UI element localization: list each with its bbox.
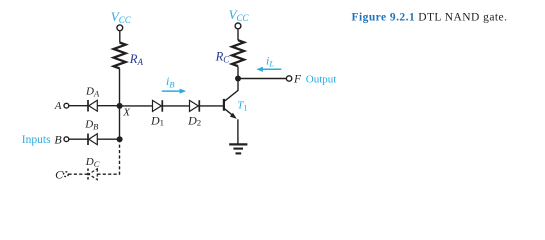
svg-text:DTL NAND gate.: DTL NAND gate. [418,12,507,24]
svg-text:F: F [293,74,302,86]
wire node X to D1 [120,105,153,107]
output terminal F [286,73,336,85]
wire RC bottom to collector node [237,66,239,78]
svg-text:B: B [54,133,62,147]
diode DB [84,118,98,145]
wire VCC to RC top [237,29,239,41]
power terminal VCC (left, top of RA) [111,9,132,31]
wire VCC to RA top [119,31,121,43]
wire B to diode DB [69,138,88,140]
svg-text:RC: RC [215,49,231,64]
wire RA bottom to node X [119,68,121,106]
diode D2 [187,100,201,127]
ground [229,144,247,153]
input terminal C (dashed) [55,168,68,182]
svg-text:DC: DC [85,156,100,169]
wire D1 to D2 [163,105,190,107]
wire DB to node B junction [97,138,119,140]
svg-text:D1: D1 [150,113,164,127]
svg-text:A: A [54,100,62,112]
svg-text:VCC: VCC [111,9,132,25]
svg-text:X: X [122,106,131,118]
svg-text:T1: T1 [237,100,247,113]
wire node X down to B junction [119,106,121,139]
node B junction dot [117,136,123,142]
svg-text:Inputs: Inputs [22,134,51,146]
node X junction dot [117,103,132,119]
current arrow iB [162,74,186,94]
svg-text:RA: RA [129,52,144,67]
wire collector node to output F [238,78,286,80]
wire A to diode DA [69,105,88,107]
power terminal VCC (right, top of RC) [229,7,250,29]
wire DA to node X [97,105,119,107]
svg-text:VCC: VCC [229,7,250,23]
input terminal B [54,133,68,147]
resistor RC [215,40,244,66]
current arrow iL [256,53,281,72]
diode D1 [150,100,164,127]
diode DC (dashed) [85,156,100,180]
svg-text:iB: iB [166,74,175,90]
svg-text:DB: DB [84,118,98,131]
svg-text:Output: Output [306,73,337,85]
diode DA [85,86,100,112]
svg-text:DA: DA [85,86,100,99]
resistor RA [114,43,144,69]
dashed wire B junction down to C row [119,139,121,174]
transistor T1 [224,79,248,145]
figure caption [352,12,508,24]
collector node junction dot [235,76,241,82]
dashed wire DC to vertical bus [97,173,120,175]
svg-text:Figure 9.2.1: Figure 9.2.1 [352,12,416,24]
dashed wire C to diode DC [68,173,88,175]
input terminal A [54,100,69,112]
svg-text:C: C [55,168,64,182]
wire D2 to base of T1 [200,105,223,107]
svg-text:iL: iL [266,53,274,68]
svg-text:D2: D2 [187,113,201,127]
